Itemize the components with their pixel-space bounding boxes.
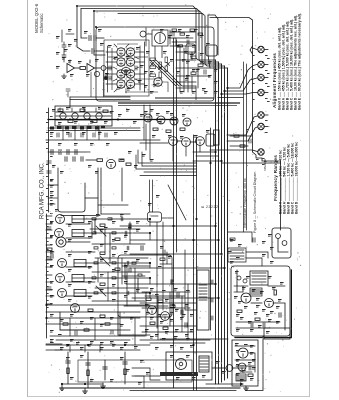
resistor R4: [150, 74, 156, 77]
wire rect inner 2: [235, 359, 255, 361]
wire power inner 5: [234, 285, 248, 287]
tuner inner wires 1: [106, 51, 116, 53]
small rect det 1: [132, 262, 136, 264]
wire IF bus link 1: [120, 225, 215, 227]
output transformer T7: [228, 248, 246, 262]
wire left chassis upper: [48, 108, 50, 212]
tuner inner box: [104, 40, 149, 96]
tube V23: [58, 289, 67, 298]
wire lower right border vertical: [280, 161, 282, 230]
wire bundle jog 2: [196, 155, 218, 157]
wire stage 1: [84, 218, 150, 220]
resistor R9: [58, 109, 63, 111]
component value labels tube rows: [144, 111, 210, 139]
wire top cluster drop 4: [162, 222, 164, 310]
left margin stage ticks: [46, 216, 52, 304]
tuner inner vertical 3: [144, 42, 146, 92]
wire row B links: [140, 142, 168, 144]
wire AF row2: [150, 342, 205, 344]
wire stage riser 3: [124, 263, 126, 278]
wire pair down a: [97, 168, 99, 214]
wire IF vertical f: [134, 268, 136, 301]
det box: [118, 255, 172, 317]
capacitor C16: [171, 280, 173, 284]
wire drop x185: [185, 250, 196, 310]
wire top gang link 2: [169, 30, 171, 44]
component value labels bottom left: [50, 314, 134, 382]
capacitor C14: [181, 310, 183, 314]
antenna symbol A1: [67, 64, 75, 73]
wire terminal feed 5: [227, 116, 257, 135]
resistor R43: [230, 238, 235, 240]
wire osc diag 1: [150, 60, 176, 86]
capacitor C44: [187, 40, 189, 44]
small cap row 1: [121, 217, 123, 221]
wire band row 2: [70, 99, 130, 101]
wire bm dense 5: [140, 325, 196, 327]
tuner inner wires 5: [135, 51, 144, 53]
antenna symbol A2: [87, 64, 95, 73]
terminal T2: [258, 61, 264, 67]
IF transformer winding line 2: [72, 232, 84, 234]
power box extra labels: [234, 276, 284, 317]
terminal T1: [258, 46, 264, 52]
wire left col tick 5: [46, 281, 52, 283]
tuner inner wires 7: [135, 73, 144, 75]
capacitor C25: [47, 287, 51, 289]
wire osc mesh v2: [197, 68, 199, 88]
capacitor C46: [66, 89, 70, 91]
wire osc mesh v3: [191, 52, 193, 60]
resistor R45: [84, 329, 89, 331]
tube V14: [183, 118, 191, 126]
stack 4 capacitor: [103, 367, 107, 369]
wire bm dense 2: [145, 295, 185, 297]
wire rect section extra 1: [236, 365, 254, 367]
wire bl drop c: [99, 345, 101, 352]
IF transformer T3: [74, 260, 86, 267]
stack 2 resistor: [87, 370, 89, 376]
speaker field coil: [199, 356, 209, 372]
wire tuner interior 1: [111, 48, 113, 90]
wire bundle row b: [218, 97, 243, 99]
wire bl row 5: [56, 339, 130, 341]
trimmer 2: [159, 67, 162, 70]
wire IF stage drop 4: [149, 278, 151, 284]
rectifier section box: [232, 340, 258, 386]
wire left col tick 2: [46, 237, 52, 239]
wire cap link: [96, 37, 104, 39]
resistor R21: [180, 128, 185, 130]
tuner dark junction blob: [104, 76, 108, 80]
tube V22: [56, 274, 65, 283]
wire band h1: [138, 162, 197, 164]
wire ant stack 4: [63, 48, 65, 55]
tube V5: [117, 70, 126, 79]
tube pin lines cluster: [113, 44, 139, 93]
wire snake 1: [48, 197, 57, 199]
tube V2: [126, 48, 135, 57]
wire vol pair bend 2: [98, 204, 128, 206]
wire IF vertical c: [129, 222, 131, 244]
bus single wire a: [173, 38, 175, 388]
wire antenna drop 2: [81, 9, 87, 39]
eye cluster cap: [51, 254, 53, 258]
resistor R1: [80, 67, 86, 70]
tuning gang rotor: [155, 33, 166, 44]
choke hatch: [251, 290, 261, 294]
ground G3: [244, 386, 249, 390]
wire IF extra row 8: [92, 271, 150, 273]
wire speaker feed: [210, 150, 258, 152]
capacitor C41: [62, 45, 66, 47]
wire ant stack 5: [63, 58, 65, 62]
resistor R27: [88, 309, 93, 311]
wire top cluster drop 5: [145, 124, 147, 150]
choke L7: [250, 288, 262, 296]
wire IF vertical g: [107, 272, 109, 301]
tube V9: [154, 78, 163, 87]
resistor R19: [153, 128, 158, 130]
resistor R36: [237, 310, 242, 312]
resistor R41: [198, 64, 203, 66]
wire bl extra 2: [46, 349, 62, 351]
tube V20: [55, 229, 64, 238]
wire power inner 8: [236, 321, 280, 323]
capacitor C45: [249, 366, 251, 370]
wire shield box right: [217, 19, 219, 55]
power transformer T6: [250, 271, 268, 285]
wire osc mesh 2: [176, 87, 196, 89]
wire IF vertical a: [91, 222, 93, 238]
cluster mid: wire 2: [166, 252, 168, 264]
bus wire 3: [221, 64, 223, 382]
bottom left extra labels: [50, 330, 150, 385]
capacitor C33: [135, 66, 137, 70]
bus bend top 3: [202, 62, 222, 64]
phono loop box: [78, 360, 192, 382]
wire band h4: [144, 171, 197, 173]
wire osc top row: [170, 31, 195, 33]
small rect row 3: [94, 247, 98, 249]
switch drop 3: [86, 126, 88, 140]
resistor R11: [80, 109, 85, 111]
switch wafer W2: [72, 113, 78, 119]
wire speaker out: [212, 367, 226, 369]
wire power inner 7: [268, 285, 285, 287]
wire bundle jog 3: [193, 160, 221, 162]
svg-text:Schematic: Schematic: [39, 13, 44, 33]
wire bm vertical 2: [157, 296, 159, 340]
resistor R23: [115, 238, 120, 240]
wire mid link 2: [85, 197, 98, 199]
resistor R10: [68, 120, 73, 122]
wire right border top: [210, 18, 253, 153]
svg-text:Band D .......................: Band D ........................ 18,000 k…: [295, 142, 299, 214]
capacitor C36: [81, 133, 83, 137]
wire cap link 2: [94, 50, 104, 52]
heavy shelf line: [155, 97, 214, 99]
stack 4 vertical: [104, 360, 106, 380]
cluster mid labels: [158, 246, 172, 269]
wire phono bottom row: [62, 383, 103, 385]
switch wafer W4: [96, 113, 102, 119]
page left edge line: [27, 0, 29, 397]
wire tuner interior 4: [134, 56, 148, 58]
resistor R3: [150, 66, 156, 69]
ground G2: [83, 388, 88, 393]
ground G4: [62, 74, 67, 78]
heavy chassis line 2: [118, 104, 237, 106]
osc top row: resistor R51: [172, 29, 177, 31]
wire antenna drop 3: [94, 11, 105, 55]
resistor R34: [150, 322, 155, 324]
switch inner tick 4: [95, 108, 97, 112]
resistor R14: [97, 159, 103, 162]
tuning gang shaft: [159, 34, 161, 43]
wire tuner interior 6: [125, 91, 158, 93]
small rect row 5b: [112, 277, 116, 279]
IF transformer T5: [74, 290, 86, 297]
wire heavy row: [48, 119, 176, 121]
tube V6: [126, 70, 135, 79]
component value labels top left: [62, 29, 109, 77]
bus component box: [214, 130, 220, 145]
resistor R57: [178, 45, 183, 47]
IF transformer winding line 5: [74, 292, 86, 294]
wire antenna drop 1: [77, 6, 90, 51]
tube row B: tube V15: [169, 137, 178, 146]
volume control mark: [151, 215, 158, 217]
wire tuner interior 3: [108, 56, 118, 58]
capacitor C6: [67, 150, 69, 155]
capacitor C1: [89, 36, 91, 41]
small rect row 6: [94, 292, 98, 294]
bus bend top 4: [205, 64, 225, 66]
trimmer 3: [167, 63, 170, 66]
wire IF vertical d: [97, 258, 99, 282]
terminal T5: [258, 112, 264, 118]
small rect row 2: [92, 232, 96, 234]
left margin label column: [46, 210, 53, 308]
eye cluster resistor: [47, 248, 52, 250]
wire bm dense 3: [140, 302, 196, 304]
speaker box: [166, 352, 212, 380]
resistor R52: [180, 33, 185, 35]
wire ant top tick 1: [69, 60, 71, 63]
wire osc grid v1: [179, 46, 181, 92]
wire tube row drops c: [199, 146, 201, 152]
tube V3: [117, 58, 126, 67]
wire gang drop 1: [154, 46, 156, 60]
scan noise speckle: [46, 4, 301, 393]
wire loop bottom pair: [61, 215, 100, 217]
output transformer hatch: [230, 250, 244, 259]
capacitor C13: [129, 268, 131, 272]
terminal name labels: [246, 55, 270, 165]
antenna lead A1: [75, 67, 81, 69]
wire tuner interior 5: [134, 78, 154, 80]
resistor R31: [146, 298, 151, 300]
wire terminal stub 2: [264, 64, 268, 66]
wire IF bus link 2: [130, 239, 218, 241]
mini box coil 1: [276, 234, 281, 239]
component value labels volume rows: [50, 179, 160, 206]
tuner cap row: capacitor C31: [109, 66, 111, 70]
switch inner tick 3: [83, 108, 85, 112]
tube V29: [238, 348, 248, 358]
wire ant top tick 2: [89, 60, 91, 63]
rectifier extra labels: [236, 344, 254, 381]
rectifier tube V27: [241, 293, 251, 303]
socket row under switch box: [50, 126, 105, 130]
cluster mid: wire: [160, 263, 172, 265]
wire top gang link 1: [145, 28, 147, 46]
wire diag to AF: [168, 185, 186, 220]
tube V12: [157, 116, 165, 124]
wire stage 2: [84, 232, 150, 234]
terminal T3: [258, 74, 264, 80]
output terminal: [226, 365, 233, 372]
mini box wire: [278, 239, 288, 252]
wire band drop: [69, 97, 71, 108]
resistor R26: [100, 283, 105, 285]
bus wire 4: [224, 66, 226, 380]
bus bend top 1: [196, 58, 216, 60]
diag wire 1: [96, 226, 106, 236]
wire top gang h: [146, 33, 152, 35]
coil base box: [206, 45, 217, 56]
wire terminal feed 4: [221, 93, 257, 95]
wire band h3: [136, 168, 197, 170]
wire bl vertical c: [119, 312, 121, 336]
bus group right: wire 1: [215, 60, 217, 384]
wire right bundle comp row 2: [230, 145, 248, 147]
resistor R35: [163, 327, 168, 329]
capacitor C17: [177, 293, 179, 297]
terminal speaker plug T7: [258, 149, 264, 155]
ground G5: [101, 383, 106, 388]
volume control leads: [149, 180, 151, 212]
capacitor C3: [92, 49, 94, 54]
wire bm dense 6: [142, 331, 193, 333]
tuner inner vertical: [139, 46, 141, 90]
resistor R8: [165, 66, 168, 72]
wire IF extra row 12: [92, 300, 145, 302]
IF transformer winding line 4: [72, 277, 84, 279]
capacitor C20: [47, 171, 51, 173]
wire osc grid v2: [183, 48, 185, 92]
wire bl vertical d: [134, 318, 136, 345]
component value labels tuner area: [108, 43, 210, 91]
diag wire 2: [100, 256, 110, 266]
capacitor C32: [109, 76, 111, 80]
transformer hatch: [252, 273, 266, 282]
wire rect bottom link: [246, 388, 263, 391]
IF transformer winding line 1: [72, 218, 84, 220]
resistor R42: [191, 72, 196, 74]
wire bm dense 4: [142, 307, 190, 309]
wire IF stage drop 1: [149, 219, 151, 226]
IF detail: small rect row 1: [92, 218, 96, 220]
wire band h5: [140, 175, 197, 177]
stack 1 vertical: [67, 352, 69, 384]
stack 3 vertical: [124, 352, 126, 384]
bus cap 1: [211, 280, 213, 284]
wire bottom second: [130, 390, 236, 392]
wire right drop pair b: [246, 64, 248, 230]
wire top cluster drop 3: [156, 222, 158, 328]
wire osc grid h2: [176, 59, 196, 61]
wire arrow row: [86, 159, 97, 161]
resistor R22: [100, 224, 105, 226]
capacitor C9: [73, 157, 75, 161]
speaker driver circle: [176, 359, 187, 370]
wire top bus line 3: [94, 11, 202, 62]
resistor R40: [191, 56, 196, 58]
wire terminal stub 6: [264, 126, 268, 128]
wire top cluster drop 2: [149, 105, 151, 160]
resistor R13: [103, 110, 108, 112]
wire mid link: [48, 184, 58, 186]
wire osc fill 2: [170, 45, 192, 47]
wire mid row 2: [162, 217, 174, 219]
wire eye link: [66, 241, 90, 243]
tube V28: [265, 299, 274, 308]
switch drop 2: [74, 126, 76, 140]
wire tuner interior 7: [162, 82, 168, 92]
wire shield box top: [208, 15, 218, 19]
wire terminal feed 6: [227, 127, 257, 141]
wire terminal stub 3: [264, 77, 268, 79]
component value labels right mid: [228, 234, 274, 264]
capacitor C15: [185, 323, 187, 327]
tube V7: [117, 80, 126, 89]
rect box hatch 1: [236, 374, 246, 381]
coil can L6: [206, 134, 215, 146]
switch inner tick 1: [59, 108, 61, 112]
tuner inner wires 3: [106, 73, 116, 75]
bus single wire b: [176, 40, 178, 252]
resistor R50: [240, 145, 245, 147]
wire speaker lower row: [222, 162, 280, 164]
resistor R54: [198, 33, 203, 35]
component value labels IF strip: [50, 209, 140, 302]
volume control box: [148, 212, 162, 222]
wire stage riser 1: [94, 219, 96, 233]
switch inner line 1: [56, 115, 111, 117]
row caps: capacitor C34: [57, 133, 59, 137]
wire tube row drops a: [172, 146, 174, 161]
capacitor C40: [263, 323, 265, 327]
left margin label column upper: [46, 112, 53, 201]
diag wire 3: [96, 286, 106, 296]
component value labels top right cluster: [144, 29, 218, 94]
wire bm dense 1: [142, 291, 190, 293]
tuning gang frame: [152, 30, 168, 46]
resistor R24: [100, 252, 105, 254]
wire IF extra row 6: [95, 257, 148, 259]
wire band row 1: [70, 96, 130, 98]
tuner inner vertical 2: [107, 46, 109, 92]
wire bl extra 1: [46, 343, 62, 345]
capacitor C19: [47, 161, 51, 163]
eye tube target: [59, 240, 63, 244]
wire stage 5: [86, 292, 150, 294]
resistor R25: [115, 268, 120, 270]
bus wire 5: [227, 68, 229, 378]
rect box hatch lines: [237, 376, 245, 380]
